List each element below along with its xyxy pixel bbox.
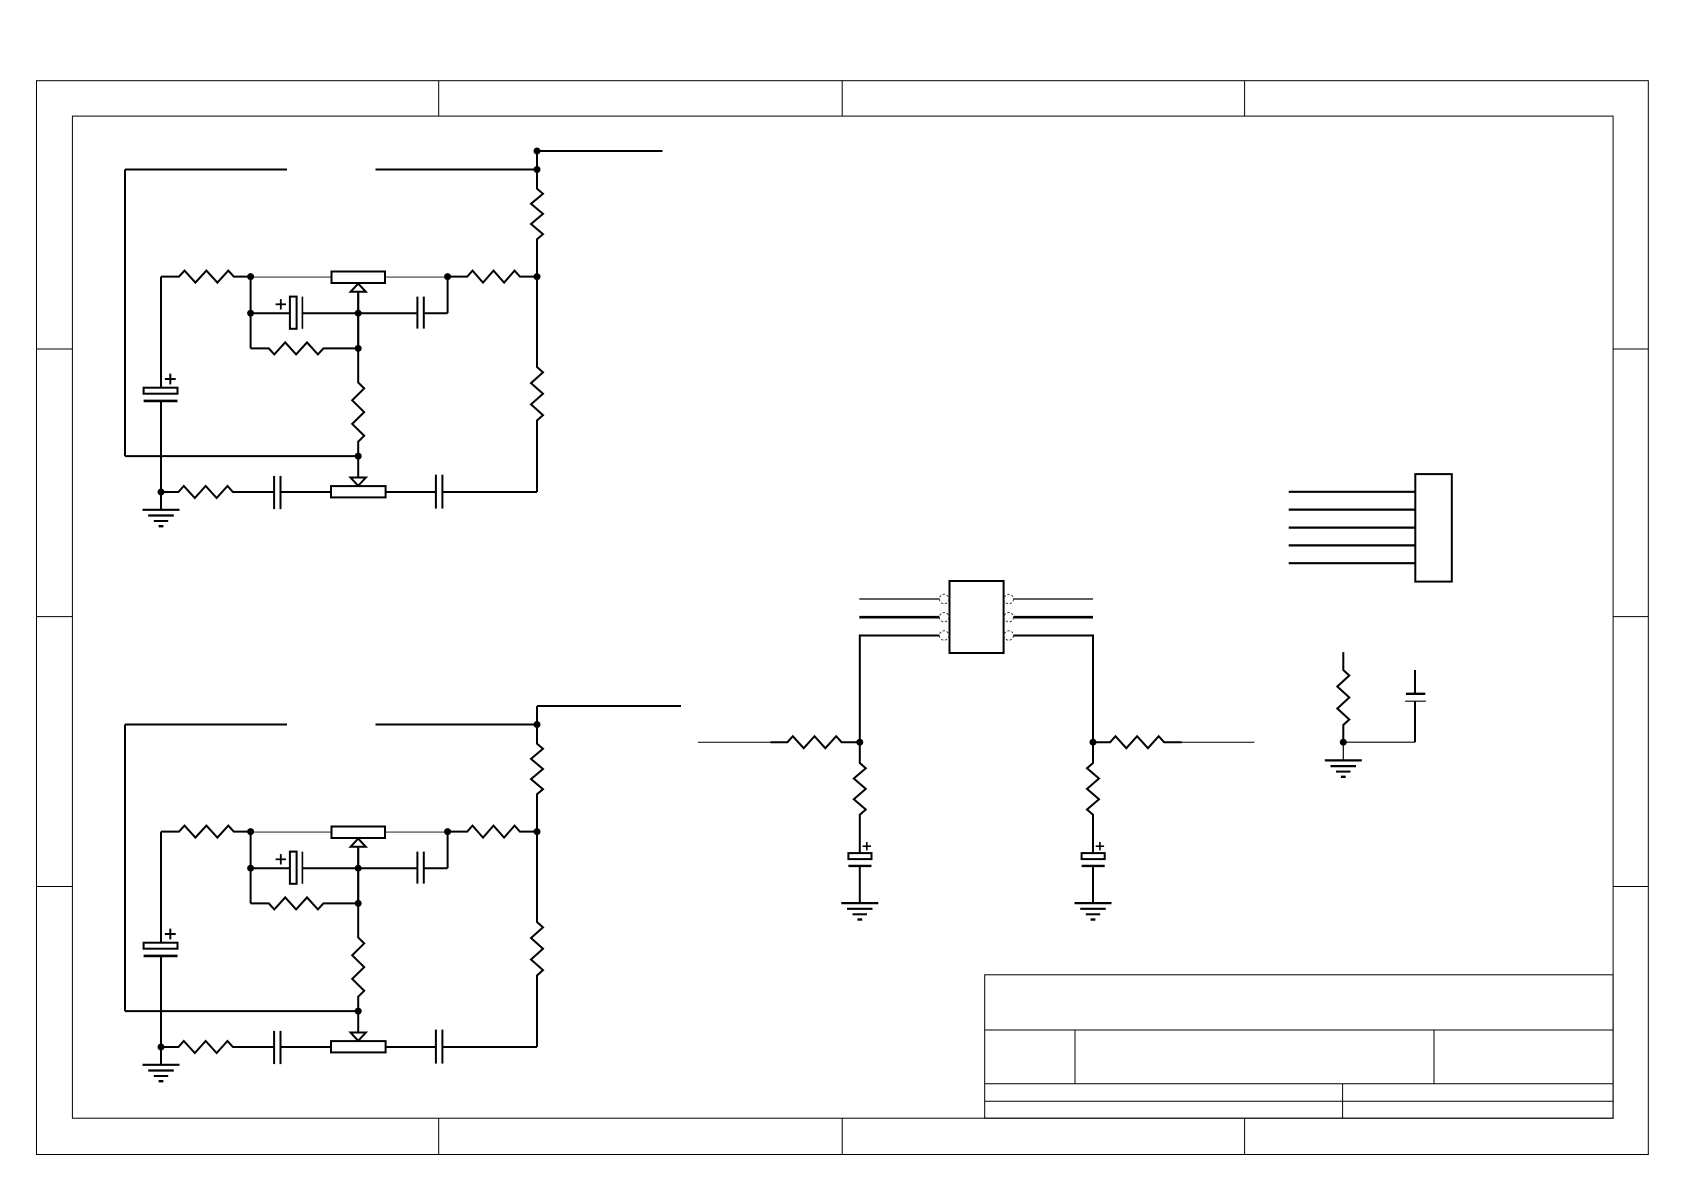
connector J1 body: [1415, 474, 1452, 581]
wire bottom row right segment ch1: [442, 491, 537, 493]
wire left vertical feedback loop ch1: [124, 170, 126, 457]
ground ch2: [143, 1065, 180, 1081]
wire U1 pin3 left down: [860, 636, 940, 743]
resistor left branch shunt vertical: [854, 742, 866, 853]
wire output stub to upper right ch2: [537, 706, 681, 725]
potentiometer top body ch1: [332, 272, 386, 284]
wire ceramic to right node ch1: [424, 277, 448, 314]
wire cap row to ceramic ch1: [358, 312, 417, 314]
resistor right branch series: [1093, 736, 1182, 748]
capacitor electrolytic left branch positive plate: [848, 853, 871, 859]
wire connector J1 pin 1: [1289, 491, 1416, 493]
capacitor electrolytic feedback negative plate ch1: [301, 297, 303, 329]
wire bottom row left of pot ch2: [281, 1046, 332, 1048]
wire input branch lower vertical ch2: [160, 956, 162, 1047]
capacitor bottom right ch1: [436, 475, 443, 509]
resistor pot row left ch1: [161, 271, 251, 283]
wire U1 pin1 left thin: [859, 598, 939, 600]
wire top rail right segment ch1: [376, 169, 538, 171]
title block column divider right: [1433, 1030, 1435, 1084]
title block column divider left: [1074, 1030, 1076, 1084]
wire cap to pot wiper body ch1: [386, 491, 436, 493]
node output corner ch1: [534, 148, 541, 155]
title block row line 2: [985, 1083, 1613, 1085]
title block outline: [985, 975, 1613, 1118]
wire snubber cap stub up: [1414, 670, 1416, 694]
ground right branch: [1075, 903, 1112, 919]
capacitor electrolytic input negative plate ch1: [144, 400, 178, 403]
capacitor electrolytic feedback positive plate ch1: [290, 297, 297, 329]
node right divider ch2: [534, 828, 541, 835]
node right branch: [1090, 739, 1097, 746]
capacitor electrolytic input plus ch1: [165, 374, 176, 385]
node ground junction ch1: [158, 489, 165, 496]
capacitor electrolytic left branch negative plate: [848, 865, 871, 867]
capacitor electrolytic feedback plus ch1: [276, 299, 286, 309]
potentiometer top wiper arrow ch1: [351, 284, 366, 314]
ground left branch: [841, 903, 878, 919]
node wiper column bottom ch2: [355, 1008, 362, 1015]
wire long feedback bottom ch1: [125, 455, 358, 457]
capacitor electrolytic feedback plus ch2: [276, 854, 286, 864]
node pot row right ch2: [444, 828, 451, 835]
potentiometer bottom body ch2: [331, 1041, 386, 1052]
wire ceramic to right node ch2: [424, 832, 448, 869]
wire bottom row right segment ch2: [442, 1046, 537, 1048]
transformer U1 pin circle left 1: [939, 594, 948, 603]
resistor feedback row ch2: [251, 897, 359, 909]
zone tick left: [37, 348, 73, 350]
wire right branch to ground: [1092, 866, 1094, 903]
node pot row left ch2: [247, 828, 254, 835]
ground snubber: [1325, 760, 1362, 776]
node cap row left ch1: [247, 310, 254, 317]
wire snubber node to ground: [1342, 742, 1344, 760]
resistor lower right vertical ch2: [531, 832, 543, 1047]
capacitor electrolytic right branch positive plate: [1082, 853, 1105, 859]
wire thin through potentiometer ch2: [251, 831, 448, 833]
wire top rail left segment ch1: [125, 169, 287, 171]
title block row line 1: [985, 1029, 1613, 1031]
wire connector J1 pin 2: [1289, 509, 1416, 511]
capacitor ceramic feedback ch2: [417, 852, 423, 884]
potentiometer top body ch2: [332, 827, 386, 839]
wire wiper column mid ch1: [357, 313, 359, 348]
resistor right branch shunt vertical: [1087, 742, 1099, 853]
transformer U1 pin circle right 1: [1004, 594, 1013, 603]
wire left vertical feedback loop ch2: [124, 725, 126, 1012]
node feedback row ch2: [355, 900, 362, 907]
node ground junction ch2: [158, 1044, 165, 1051]
wire U1 pin4 right down: [1014, 636, 1094, 743]
sheet inner border frame: [72, 116, 1613, 1118]
wire top rail left segment ch2: [125, 724, 287, 726]
potentiometer top wiper arrow ch2: [351, 839, 366, 869]
resistor feedback row ch1: [251, 342, 359, 354]
wire cap row left lead ch2: [251, 867, 290, 869]
zone tick right: [1613, 348, 1648, 350]
resistor wiper column vertical ch1: [352, 348, 364, 456]
zone tick right: [1613, 616, 1648, 618]
resistor bottom row to ground ch2: [161, 1041, 274, 1053]
wire cap row mid ch2: [302, 867, 358, 869]
potentiometer bottom wiper arrow ch2: [351, 1011, 366, 1041]
transformer U1 body: [950, 581, 1004, 653]
capacitor electrolytic left branch plus: [863, 842, 871, 850]
node pot row right ch1: [444, 273, 451, 280]
wire cap to pot wiper body ch2: [386, 1046, 436, 1048]
wire input branch lower vertical ch1: [160, 401, 162, 492]
node wiper column bottom ch1: [355, 453, 362, 460]
node top rail right ch2: [534, 721, 541, 728]
wire cap row left lead ch1: [251, 312, 290, 314]
node wiper cap row ch2: [355, 865, 362, 872]
node right divider ch1: [534, 273, 541, 280]
capacitor bottom right ch2: [436, 1030, 443, 1064]
zone tick bottom: [841, 1118, 843, 1154]
wire long feedback bottom ch2: [125, 1010, 358, 1012]
node pot row left ch1: [247, 273, 254, 280]
node cap row left ch2: [247, 865, 254, 872]
resistor upper right vertical ch2: [531, 725, 543, 832]
capacitor ceramic feedback ch1: [417, 297, 423, 329]
node wiper cap row ch1: [355, 310, 362, 317]
capacitor electrolytic feedback positive plate ch2: [290, 852, 297, 884]
node top rail right ch1: [534, 166, 541, 173]
wire left branch to ground: [859, 866, 861, 903]
node snubber: [1340, 739, 1347, 746]
wire U1 pin6 right thin: [1014, 598, 1094, 600]
wire pot row to cap row left ch2: [250, 832, 252, 869]
capacitor bottom left ch1: [274, 476, 280, 509]
capacitor electrolytic input positive plate ch2: [144, 943, 178, 949]
capacitor snubber top plate: [1406, 693, 1425, 695]
wire left branch input thin: [698, 741, 771, 743]
zone tick top: [1244, 81, 1246, 116]
transformer U1 pin circle right 2: [1004, 613, 1013, 622]
wire connector J1 pin 5: [1289, 562, 1416, 564]
title block bottom column divider: [1342, 1084, 1344, 1119]
wire output stub to upper right ch1: [537, 151, 663, 170]
resistor lower right vertical ch1: [531, 277, 543, 492]
wire top rail right segment ch2: [376, 724, 538, 726]
wire thin through potentiometer ch1: [251, 276, 448, 278]
potentiometer bottom wiper arrow ch1: [351, 456, 366, 486]
wire cap row to ceramic ch2: [358, 867, 417, 869]
ground ch1: [143, 510, 180, 526]
zone tick bottom: [1244, 1118, 1246, 1154]
wire snubber node to cap: [1343, 741, 1415, 743]
zone tick top: [438, 81, 440, 116]
transformer U1 pin circle right 3: [1004, 631, 1013, 640]
wire wiper column mid ch2: [357, 868, 359, 903]
capacitor electrolytic input positive plate ch1: [144, 388, 178, 394]
node left branch: [856, 739, 863, 746]
potentiometer bottom body ch1: [331, 486, 386, 497]
resistor pot row right ch1: [448, 271, 537, 283]
title block row line 3: [985, 1100, 1613, 1102]
capacitor snubber bottom plate: [1405, 700, 1426, 702]
wire snubber cap vertical: [1414, 701, 1416, 742]
wire ground stub ch1: [160, 492, 162, 510]
transformer U1 pin circle left 2: [939, 613, 948, 622]
wire cap row down left ch2: [250, 868, 252, 903]
wire bottom row left of pot ch1: [281, 491, 332, 493]
wire pot row to cap row left ch1: [250, 277, 252, 314]
capacitor electrolytic right branch negative plate: [1082, 865, 1105, 867]
capacitor electrolytic right branch plus: [1096, 842, 1104, 850]
wire right branch output thin: [1182, 741, 1255, 743]
transformer U1 pin circle left 3: [939, 631, 948, 640]
zone tick top: [841, 81, 843, 116]
wire ground stub ch2: [160, 1047, 162, 1065]
capacitor electrolytic input negative plate ch2: [144, 955, 178, 958]
resistor upper right vertical ch1: [531, 170, 543, 277]
wire cap row mid ch1: [302, 312, 358, 314]
wire cap row down left ch1: [250, 313, 252, 348]
capacitor electrolytic feedback negative plate ch2: [301, 852, 303, 884]
zone tick right: [1613, 886, 1648, 888]
zone tick left: [37, 616, 73, 618]
node feedback row ch1: [355, 345, 362, 352]
resistor left branch series: [770, 736, 859, 748]
wire input branch upper vertical ch1: [160, 277, 162, 388]
resistor snubber vertical: [1337, 652, 1349, 742]
capacitor bottom left ch2: [274, 1031, 280, 1064]
wire connector J1 pin 4: [1289, 544, 1416, 546]
capacitor electrolytic input plus ch2: [165, 929, 176, 940]
resistor bottom row to ground ch1: [161, 486, 274, 498]
zone tick bottom: [438, 1118, 440, 1154]
zone tick left: [37, 886, 73, 888]
resistor pot row left ch2: [161, 826, 251, 838]
resistor wiper column vertical ch2: [352, 903, 364, 1011]
wire input branch upper vertical ch2: [160, 832, 162, 943]
wire U1 pin2 left thick: [859, 616, 939, 619]
wire U1 pin5 right thick: [1014, 616, 1094, 619]
wire connector J1 pin 3: [1289, 526, 1416, 528]
resistor pot row right ch2: [448, 826, 537, 838]
